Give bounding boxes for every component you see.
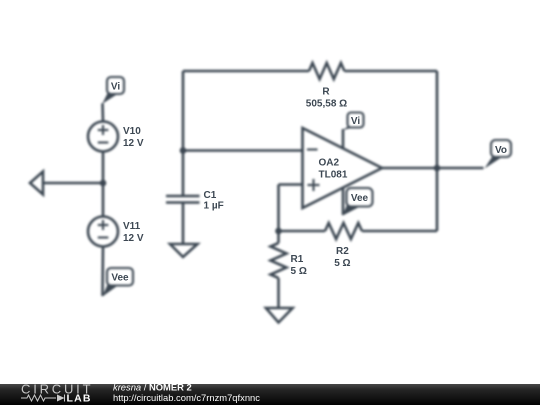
- node flag Vee (bottom left): [102, 268, 133, 297]
- wire: junction to R1: [277, 231, 280, 243]
- svg-text:5 Ω: 5 Ω: [291, 266, 307, 277]
- resistor R1 zigzag: [271, 243, 287, 278]
- footer bar: [0, 382, 540, 405]
- junction dot at output node: [434, 165, 441, 172]
- svg-text:TL081: TL081: [319, 170, 348, 181]
- node flag Vo (output): [485, 140, 512, 169]
- svg-text:5 Ω: 5 Ω: [334, 258, 350, 269]
- ground symbol below R1: [266, 308, 293, 323]
- op-amp plus input marker: [308, 184, 320, 186]
- svg-text:R: R: [322, 87, 330, 98]
- op-amp minus input marker: [307, 148, 318, 150]
- svg-text:Vee: Vee: [111, 273, 129, 284]
- svg-text:http://circuitlab.com/c7rnzm7q: http://circuitlab.com/c7rnzm7qfxnnc: [113, 392, 260, 403]
- wire: op-amp output: [382, 167, 484, 170]
- ground symbol below C1: [170, 244, 198, 257]
- wire: V10 to junction: [102, 152, 105, 184]
- svg-text:12 V: 12 V: [123, 138, 144, 149]
- svg-text:12 V: 12 V: [123, 233, 144, 244]
- svg-text:Vi: Vi: [351, 116, 360, 127]
- svg-text:V11: V11: [123, 221, 141, 232]
- op-amp positive supply pin: [342, 129, 345, 149]
- wire: non-inverting input horizontal: [279, 183, 303, 186]
- node flag Vi (op-amp V+): [343, 113, 364, 131]
- svg-text:OA2: OA2: [319, 158, 340, 169]
- voltage source V11: [88, 217, 118, 247]
- svg-text:V10: V10: [123, 126, 141, 137]
- wire: top feedback wire left segment: [183, 70, 309, 73]
- svg-text:R2: R2: [336, 246, 349, 257]
- svg-text:Vi: Vi: [111, 82, 120, 93]
- terminal arrow (left): [43, 182, 103, 185]
- svg-text:LAB: LAB: [67, 393, 92, 405]
- capacitor C1 plates: [166, 195, 200, 198]
- junction dot at R1/R2 node: [275, 228, 282, 235]
- op-amp OA2 triangle: [303, 128, 383, 208]
- resistor R zigzag: [309, 63, 344, 79]
- wire: R1 to ground: [277, 278, 280, 308]
- svg-text:C1: C1: [204, 190, 217, 201]
- wire: capacitor to ground: [182, 203, 185, 245]
- wire: right vertical feedback wire: [436, 71, 439, 231]
- wire: R2 to right vertical: [362, 230, 437, 233]
- wire: top feedback wire right segment: [344, 70, 437, 73]
- wire: inverting input wire: [183, 149, 303, 152]
- wire: V11 to Vee flag: [101, 247, 104, 297]
- wire: Vi flag to V10: [101, 103, 104, 121]
- svg-text:R1: R1: [291, 254, 304, 265]
- op-amp negative supply pin: [342, 188, 345, 216]
- voltage source V10: [88, 122, 118, 152]
- node flag Vi (top left): [102, 77, 124, 104]
- svg-text:505,58 Ω: 505,58 Ω: [306, 99, 347, 110]
- svg-text:Vo: Vo: [495, 145, 507, 156]
- resistor R2 zigzag: [325, 223, 362, 239]
- junction dot at sources midpoint: [100, 180, 107, 187]
- svg-text:1 µF: 1 µF: [204, 201, 224, 212]
- wire: bottom wire to R2: [279, 230, 326, 233]
- junction dot at C1 / inverting input: [180, 147, 187, 154]
- wire: junction to V11: [102, 183, 105, 217]
- node flag Vee (op-amp V-): [343, 188, 373, 216]
- svg-text:Vee: Vee: [351, 193, 369, 204]
- wire: left vertical wire from top to capacitor: [182, 71, 185, 196]
- wire: non-inverting input vertical: [277, 185, 280, 232]
